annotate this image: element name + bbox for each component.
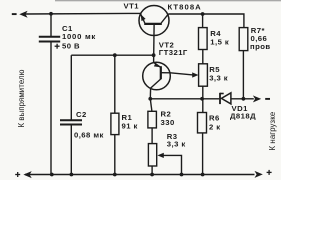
svg-text:пров: пров xyxy=(250,42,271,51)
svg-text:VT1: VT1 xyxy=(124,1,140,10)
node: C1 top junction xyxy=(49,12,53,16)
terminal minus (output, right) xyxy=(253,95,270,102)
svg-text:0,68 мк: 0,68 мк xyxy=(74,131,104,140)
label R6 xyxy=(209,114,221,132)
svg-text:Д818Д: Д818Д xyxy=(230,112,256,121)
terminal plus (output, bottom-right) xyxy=(255,170,272,178)
potentiometer R5 xyxy=(170,50,207,114)
svg-text:3,3 к: 3,3 к xyxy=(209,74,228,83)
label R7 xyxy=(250,26,271,51)
wire: base node (C2 / R1 / VT1 base) xyxy=(71,54,153,56)
svg-text:2 к: 2 к xyxy=(209,123,221,132)
label C1 xyxy=(62,24,96,51)
wire: top rail right (VT1 to corner above R7) xyxy=(168,14,244,28)
svg-text:1000 мк: 1000 мк xyxy=(62,32,96,41)
resistor R2 xyxy=(148,99,157,144)
node: C1 bottom xyxy=(50,173,54,177)
node: R3 bottom xyxy=(150,173,154,177)
svg-text:91 к: 91 к xyxy=(122,122,138,131)
label VD1 xyxy=(230,104,256,121)
wire: top rail left (arrow to VT1) xyxy=(25,12,141,15)
capacitor C1 xyxy=(39,14,60,175)
svg-text:330: 330 xyxy=(161,118,175,127)
node: R3 wiper bottom xyxy=(180,173,184,177)
node: R1 top junction xyxy=(113,53,117,57)
trimmer R3 xyxy=(148,144,181,175)
resistor R4 xyxy=(199,14,208,50)
svg-text:C2: C2 xyxy=(76,110,87,119)
zener diode VD1 xyxy=(220,93,254,104)
svg-text:ГТ321Г: ГТ321Г xyxy=(159,48,188,57)
capacitor C2 xyxy=(60,55,82,174)
node: VT2 collector junction xyxy=(148,97,152,101)
node: VT1 base junction xyxy=(152,53,156,57)
label R3 xyxy=(167,132,186,149)
label R2 xyxy=(161,110,175,128)
node: R1 bottom xyxy=(113,173,117,177)
wire: VT2 collector to zener xyxy=(150,98,219,100)
svg-text:R5: R5 xyxy=(209,65,220,74)
node: R7 bottom junction xyxy=(242,97,246,101)
bottom rail xyxy=(25,174,255,176)
svg-text:50 В: 50 В xyxy=(62,42,80,51)
svg-text:К нагрузке: К нагрузке xyxy=(268,112,277,151)
svg-text:1,5 к: 1,5 к xyxy=(210,38,229,47)
node: C2 bottom xyxy=(70,173,74,177)
label R5 xyxy=(209,65,228,83)
top edge scan artifact xyxy=(55,0,281,2)
label C2 xyxy=(74,110,104,140)
resistor R6 xyxy=(198,113,207,175)
svg-text:3,3 к: 3,3 к xyxy=(167,140,186,149)
terminal plus (input, bottom-left) xyxy=(15,171,32,178)
svg-text:R6: R6 xyxy=(209,114,220,123)
terminal minus (input, top-left) xyxy=(12,11,28,18)
svg-text:КТ808А: КТ808А xyxy=(168,3,202,12)
label R4 xyxy=(210,29,229,47)
node: R4 top junction xyxy=(201,12,205,16)
resistor R1 xyxy=(111,55,119,174)
node: R6 bottom xyxy=(201,173,205,177)
node: R5/R6 junction xyxy=(200,97,204,101)
label R1 xyxy=(122,113,138,131)
resistor R7 xyxy=(239,28,248,99)
transistor VT1 xyxy=(139,6,169,63)
svg-text:К выпрямителю: К выпрямителю xyxy=(17,69,26,127)
transistor VT2 xyxy=(143,62,171,99)
